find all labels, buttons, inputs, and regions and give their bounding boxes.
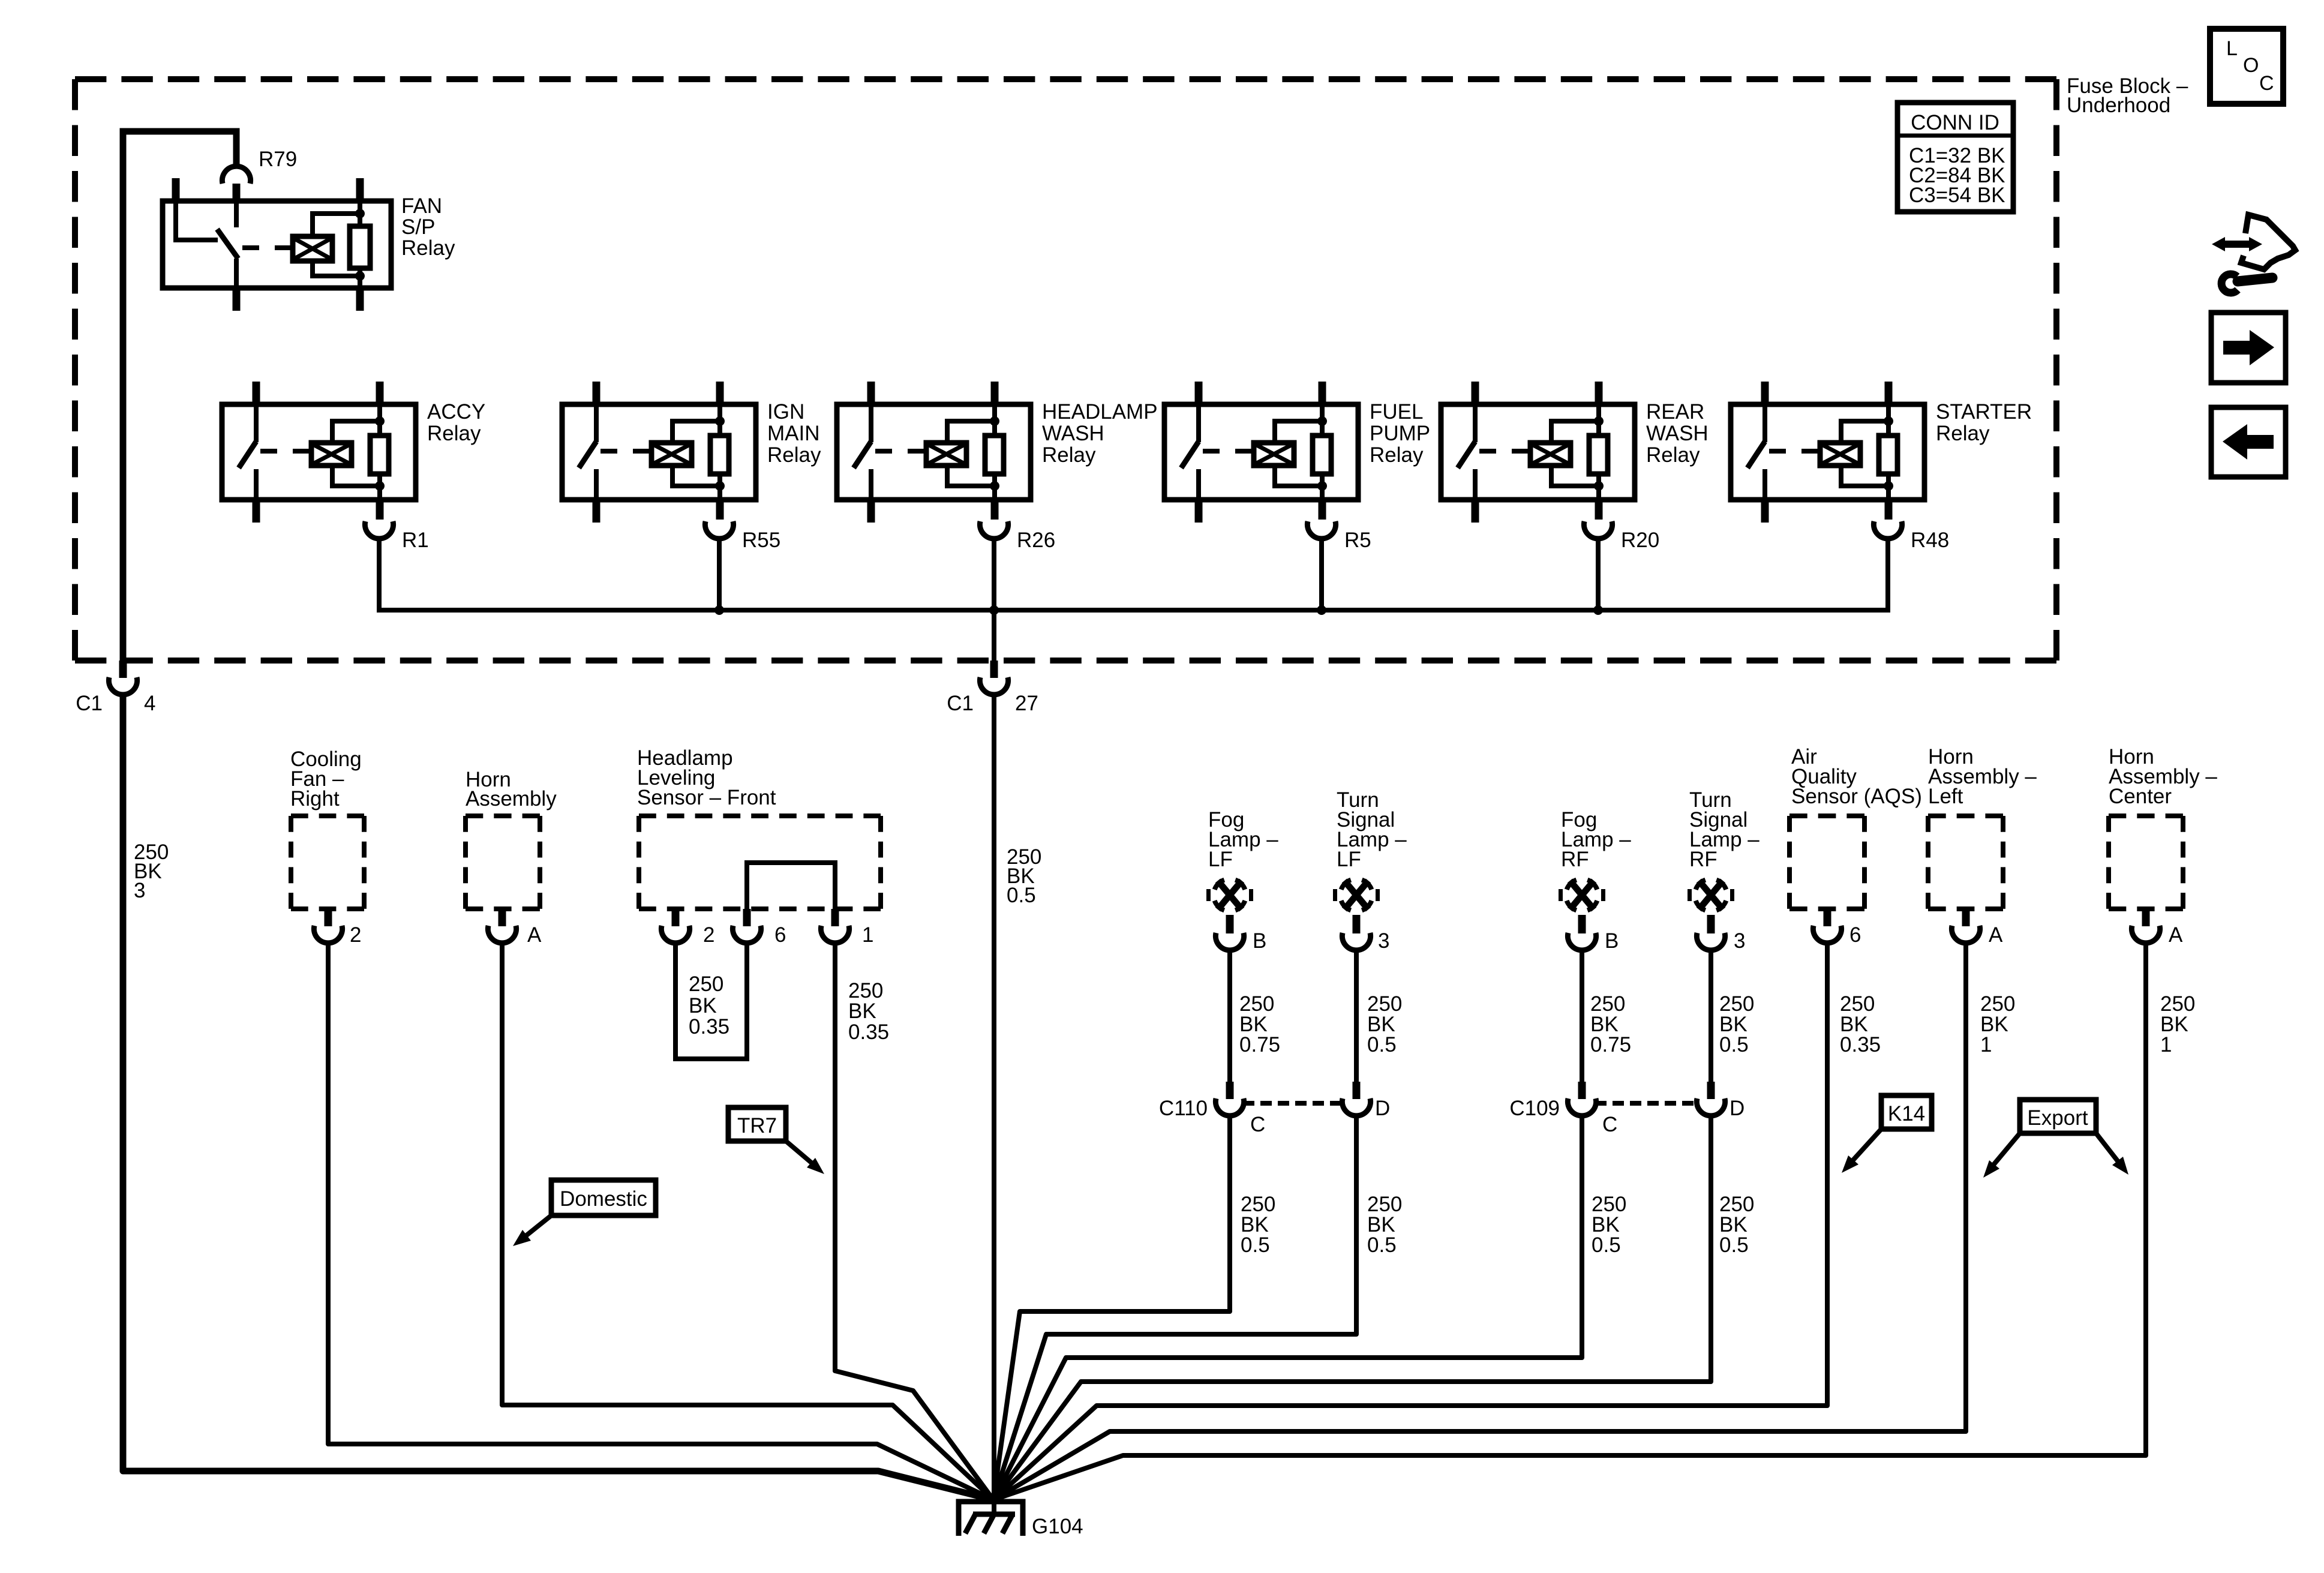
svg-text:Assembly: Assembly bbox=[466, 787, 557, 810]
svg-text:Export: Export bbox=[2027, 1106, 2088, 1130]
LOC icon bbox=[2210, 29, 2283, 104]
svg-text:Relay: Relay bbox=[1370, 443, 1424, 467]
svg-text:R48: R48 bbox=[1911, 529, 1949, 552]
svg-text:A: A bbox=[527, 923, 542, 947]
svg-text:3: 3 bbox=[1378, 929, 1389, 953]
wire fog LF to ground bbox=[993, 1115, 1230, 1500]
fuse block underhood boundary bbox=[75, 76, 2056, 82]
svg-text:0.35: 0.35 bbox=[1840, 1033, 1881, 1056]
turn signal lamp RF bbox=[1688, 788, 1759, 910]
svg-text:WASH: WASH bbox=[1042, 422, 1104, 445]
svg-text:27: 27 bbox=[1015, 692, 1038, 715]
connector C1 pin 27 bbox=[947, 661, 1038, 715]
svg-text:FAN: FAN bbox=[401, 194, 442, 218]
turn signal lamp LF bbox=[1333, 788, 1407, 910]
headlamp leveling sensor front bbox=[637, 746, 881, 909]
horn assembly center bbox=[2109, 745, 2217, 909]
connector sensor pin 6 bbox=[732, 909, 786, 947]
wire fog RF to ground bbox=[993, 1115, 1582, 1500]
connector R48 bbox=[1873, 521, 1949, 552]
svg-text:LF: LF bbox=[1208, 848, 1233, 871]
svg-text:REAR: REAR bbox=[1646, 400, 1704, 424]
svg-text:250: 250 bbox=[689, 972, 723, 996]
svg-text:FUEL: FUEL bbox=[1370, 400, 1423, 424]
svg-text:Right: Right bbox=[290, 787, 340, 810]
relay IGN MAIN bbox=[562, 382, 821, 523]
wire AQS to ground bbox=[993, 942, 1827, 1500]
wire turn into C110 bbox=[1354, 949, 1359, 1082]
svg-text:0.35: 0.35 bbox=[848, 1020, 889, 1044]
svg-text:3: 3 bbox=[134, 879, 145, 902]
svg-text:G104: G104 bbox=[1032, 1515, 1083, 1538]
svg-text:0.75: 0.75 bbox=[1590, 1033, 1631, 1056]
svg-text:C: C bbox=[1250, 1113, 1265, 1136]
wire from fuse block feed to R79 and C1-4 bbox=[123, 131, 236, 661]
svg-text:BK: BK bbox=[689, 994, 717, 1017]
wire C1-4 to ground bbox=[123, 694, 993, 1500]
svg-text:R5: R5 bbox=[1344, 529, 1371, 552]
connector cooling fan pin 2 bbox=[314, 909, 361, 947]
connector C109 cavity D bbox=[1697, 1082, 1744, 1120]
wire R26 down to C1 pin 27 bbox=[992, 610, 996, 661]
ground G104 bbox=[959, 1502, 1083, 1538]
wire R26 to bus junction bbox=[989, 538, 999, 615]
svg-text:CONN ID: CONN ID bbox=[1911, 111, 1999, 134]
wire turn RF to ground bbox=[993, 1115, 1711, 1500]
svg-text:Sensor (AQS): Sensor (AQS) bbox=[1791, 785, 1922, 808]
connector horn pin A bbox=[488, 909, 542, 947]
svg-text:L: L bbox=[2226, 37, 2238, 60]
svg-text:RF: RF bbox=[1689, 848, 1718, 871]
svg-text:R55: R55 bbox=[742, 529, 780, 552]
svg-text:MAIN: MAIN bbox=[767, 422, 820, 445]
svg-text:1: 1 bbox=[1980, 1033, 1992, 1056]
wire R55 to bus junction bbox=[714, 538, 724, 615]
svg-text:C1: C1 bbox=[76, 692, 103, 715]
svg-text:ACCY: ACCY bbox=[427, 400, 485, 424]
svg-text:C1: C1 bbox=[947, 692, 974, 715]
ground bus wire bbox=[379, 538, 1888, 610]
svg-text:6: 6 bbox=[774, 923, 786, 947]
svg-text:0.5: 0.5 bbox=[1007, 884, 1036, 907]
horn assembly left bbox=[1928, 745, 2037, 909]
svg-text:BK: BK bbox=[848, 999, 876, 1023]
svg-text:Sensor – Front: Sensor – Front bbox=[637, 786, 776, 809]
connector C110 cavity C bbox=[1159, 1082, 1265, 1136]
svg-text:2: 2 bbox=[350, 923, 361, 947]
svg-text:2: 2 bbox=[703, 923, 714, 947]
callout TR7 bbox=[728, 1107, 824, 1174]
forward arrow icon bbox=[2211, 313, 2286, 383]
wire loop pins 2-6 under sensor bbox=[675, 942, 747, 1059]
svg-text:Domestic: Domestic bbox=[560, 1187, 647, 1211]
svg-text:3: 3 bbox=[1734, 929, 1745, 953]
wire C1-27 to ground bbox=[992, 694, 996, 1502]
svg-text:R26: R26 bbox=[1017, 529, 1055, 552]
wire R5 to bus junction bbox=[1317, 538, 1326, 615]
svg-text:Underhood: Underhood bbox=[2067, 94, 2170, 117]
svg-text:D: D bbox=[1730, 1097, 1744, 1120]
svg-text:PUMP: PUMP bbox=[1370, 422, 1430, 445]
connector R55 bbox=[705, 521, 780, 552]
cooling fan right bbox=[290, 748, 364, 909]
connector R5 bbox=[1307, 521, 1371, 552]
svg-text:WASH: WASH bbox=[1646, 422, 1709, 445]
svg-text:HEADLAMP: HEADLAMP bbox=[1042, 400, 1158, 424]
svg-text:Center: Center bbox=[2109, 785, 2172, 808]
connector R20 bbox=[1584, 521, 1659, 552]
svg-text:Left: Left bbox=[1928, 785, 1963, 808]
wire horn left to ground bbox=[993, 942, 1966, 1500]
connector AQS pin 6 bbox=[1813, 909, 1861, 947]
svg-text:R20: R20 bbox=[1621, 529, 1659, 552]
relay STARTER bbox=[1731, 382, 2032, 523]
wire fog into C109 bbox=[1580, 949, 1584, 1082]
svg-text:6: 6 bbox=[1849, 923, 1861, 947]
svg-text:4: 4 bbox=[144, 692, 155, 715]
air quality sensor AQS bbox=[1789, 745, 1922, 909]
svg-text:Relay: Relay bbox=[1936, 422, 1990, 445]
svg-text:TR7: TR7 bbox=[737, 1114, 777, 1137]
svg-text:B: B bbox=[1605, 929, 1619, 953]
svg-text:0.5: 0.5 bbox=[1719, 1033, 1749, 1056]
relay REAR WASH bbox=[1441, 382, 1709, 523]
connector R79 bbox=[222, 148, 297, 203]
callout Export bbox=[1983, 1100, 2128, 1178]
fog lamp RF bbox=[1559, 808, 1631, 910]
wire turn into C109 bbox=[1709, 949, 1713, 1082]
wire fog into C110 bbox=[1227, 949, 1232, 1082]
svg-text:Relay: Relay bbox=[1042, 443, 1096, 467]
dashed link C109 C-D bbox=[1595, 1101, 1698, 1106]
jumper wire pins 6 to 1 inside sensor bbox=[747, 863, 835, 910]
svg-text:STARTER: STARTER bbox=[1936, 400, 2032, 424]
callout Domestic bbox=[513, 1180, 656, 1246]
svg-text:C3=54 BK: C3=54 BK bbox=[1909, 184, 2005, 207]
connector turn signal lamp RF pin 3 bbox=[1697, 915, 1745, 953]
fog lamp LF bbox=[1206, 808, 1278, 910]
wire sensor pin 1 to ground bbox=[835, 942, 993, 1500]
svg-text:0.75: 0.75 bbox=[1239, 1033, 1280, 1056]
svg-text:1: 1 bbox=[862, 923, 873, 947]
svg-text:IGN: IGN bbox=[767, 400, 804, 424]
connector R1 bbox=[365, 521, 428, 552]
svg-text:B: B bbox=[1253, 929, 1266, 953]
relay FUEL PUMP bbox=[1164, 382, 1430, 523]
svg-text:0.5: 0.5 bbox=[1367, 1033, 1397, 1056]
svg-text:A: A bbox=[1989, 923, 2003, 947]
svg-text:C: C bbox=[2259, 72, 2274, 95]
connector C1 pin 4 bbox=[76, 661, 155, 715]
svg-text:C109: C109 bbox=[1509, 1097, 1560, 1120]
wire R20 to bus junction bbox=[1593, 538, 1603, 615]
relay HEADLAMP WASH bbox=[837, 382, 1158, 523]
svg-text:0.5: 0.5 bbox=[1367, 1233, 1397, 1257]
wire cooling fan to ground bbox=[328, 942, 993, 1500]
svg-text:R1: R1 bbox=[402, 529, 429, 552]
svg-text:1: 1 bbox=[2160, 1033, 2172, 1056]
svg-text:0.35: 0.35 bbox=[689, 1015, 729, 1038]
service wrench icon bbox=[2212, 215, 2295, 293]
connector fog lamp RF pin B bbox=[1568, 915, 1619, 953]
svg-text:Relay: Relay bbox=[767, 443, 821, 467]
svg-text:K14: K14 bbox=[1888, 1102, 1925, 1125]
relay FAN S/P bbox=[163, 178, 455, 311]
connector fog lamp LF pin B bbox=[1215, 915, 1266, 953]
back arrow icon bbox=[2211, 407, 2286, 477]
svg-text:0.5: 0.5 bbox=[1719, 1233, 1749, 1257]
connector horn center pin A bbox=[2131, 909, 2183, 947]
dashed link C110 C-D bbox=[1243, 1101, 1343, 1106]
svg-text:0.5: 0.5 bbox=[1592, 1233, 1621, 1257]
connector C110 cavity D bbox=[1342, 1082, 1390, 1120]
svg-text:Relay: Relay bbox=[427, 422, 481, 445]
svg-text:O: O bbox=[2243, 54, 2259, 77]
svg-text:Relay: Relay bbox=[1646, 443, 1700, 467]
wire horn center to ground bbox=[993, 942, 2146, 1500]
svg-text:LF: LF bbox=[1337, 848, 1361, 871]
connector sensor pin 2 bbox=[661, 909, 714, 947]
svg-text:D: D bbox=[1375, 1097, 1390, 1120]
connector C109 cavity C bbox=[1509, 1082, 1617, 1136]
callout K14 bbox=[1842, 1095, 1932, 1173]
CONN ID table bbox=[1897, 103, 2013, 212]
svg-text:C: C bbox=[1602, 1113, 1617, 1136]
svg-text:A: A bbox=[2169, 923, 2183, 947]
svg-text:RF: RF bbox=[1561, 848, 1589, 871]
wire turn LF to ground bbox=[993, 1115, 1356, 1500]
connector horn left pin A bbox=[1951, 909, 2003, 947]
svg-text:0.5: 0.5 bbox=[1241, 1233, 1270, 1257]
svg-text:C110: C110 bbox=[1159, 1097, 1208, 1120]
relay ACCY bbox=[222, 382, 485, 523]
connector turn signal lamp LF pin 3 bbox=[1342, 915, 1389, 953]
svg-text:S/P: S/P bbox=[401, 215, 435, 239]
connector R26 bbox=[980, 521, 1055, 552]
wire horn assembly to ground bbox=[502, 942, 993, 1500]
horn assembly bbox=[466, 768, 557, 909]
svg-text:Relay: Relay bbox=[401, 236, 455, 260]
connector sensor pin 1 bbox=[821, 909, 873, 947]
svg-text:R79: R79 bbox=[259, 148, 297, 171]
